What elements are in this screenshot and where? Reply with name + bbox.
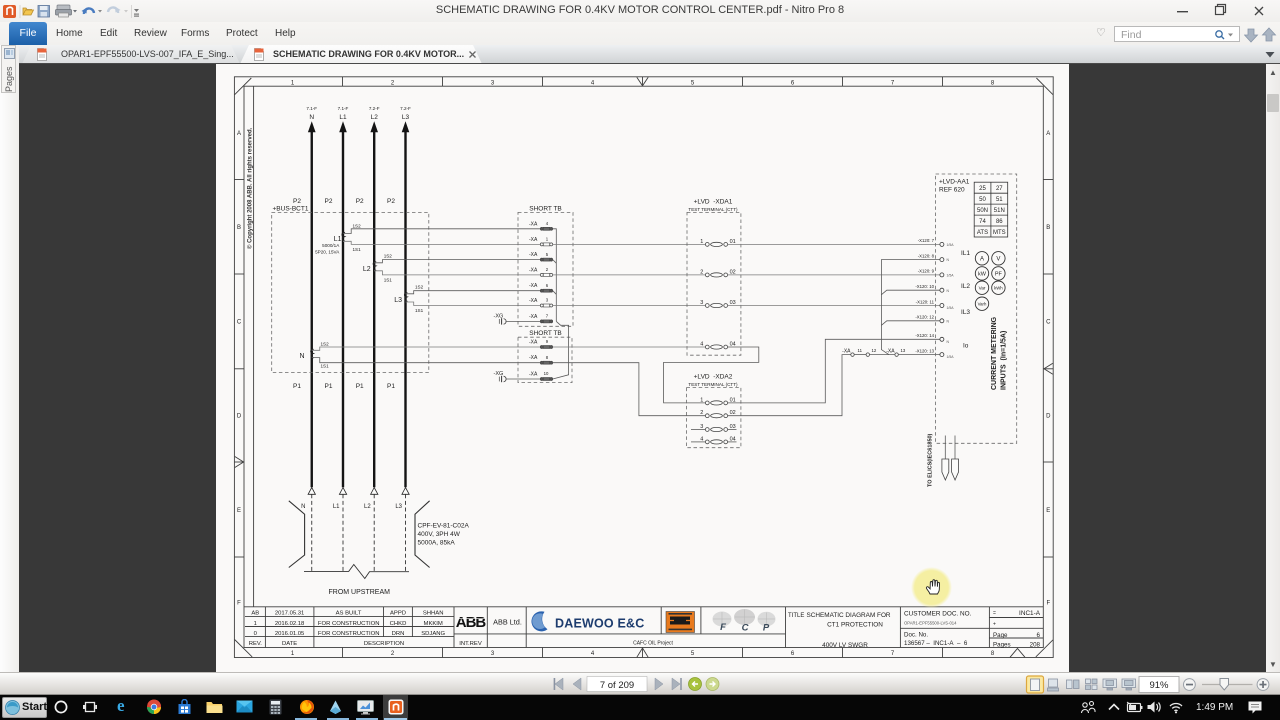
svg-text:25: 25 bbox=[979, 186, 986, 192]
terminal -XA3 bbox=[529, 298, 553, 307]
terminal -XA7 bbox=[529, 314, 553, 323]
wire L3-1S2 to -XA6 bbox=[406, 291, 541, 294]
svg-text:REF 620: REF 620 bbox=[939, 187, 965, 194]
svg-text:12: 12 bbox=[872, 348, 877, 353]
menu bar bbox=[0, 22, 1280, 45]
logo ABB bbox=[456, 614, 487, 631]
svg-text:SHHAN: SHHAN bbox=[423, 611, 444, 617]
svg-text:IL3: IL3 bbox=[961, 309, 970, 316]
test terminal -XDA2:4 bbox=[691, 436, 737, 444]
svg-text:DAEWOO E&C: DAEWOO E&C bbox=[555, 617, 645, 631]
window title bar bbox=[0, 0, 1280, 22]
relay pin 14 bbox=[915, 333, 949, 344]
svg-text:IL1: IL1 bbox=[961, 250, 970, 257]
svg-text:-XA: -XA bbox=[529, 372, 538, 378]
svg-text:7.1-F: 7.1-F bbox=[338, 106, 349, 111]
svg-text:V: V bbox=[996, 257, 1000, 263]
document tab row bbox=[19, 45, 1280, 64]
wire -XDA2:2 to -XA11 row bbox=[728, 355, 851, 416]
svg-text:1S2: 1S2 bbox=[353, 223, 362, 228]
status bar bbox=[0, 672, 1280, 695]
wire -XDA1:2 to relay pin 9 bbox=[728, 274, 940, 276]
logo DAEWOO E&C bbox=[531, 611, 644, 631]
svg-text:2: 2 bbox=[700, 410, 703, 416]
svg-text:3: 3 bbox=[546, 298, 549, 303]
terminal -XA5 bbox=[529, 252, 553, 261]
svg-text:7: 7 bbox=[546, 314, 549, 319]
svg-text:7: 7 bbox=[891, 651, 895, 657]
wire TB1 right common link bbox=[553, 229, 569, 379]
svg-text:-X120: 7: -X120: 7 bbox=[918, 238, 935, 243]
svg-text:kWh: kWh bbox=[994, 286, 1003, 291]
svg-text:L2: L2 bbox=[364, 504, 371, 510]
test terminal -XDA1:4 bbox=[700, 342, 735, 350]
wire -XA3 to -XDA1:3 bbox=[553, 305, 706, 307]
svg-text:-XA: -XA bbox=[529, 298, 538, 304]
svg-text:kW: kW bbox=[978, 272, 987, 278]
svg-text:-X120: 8: -X120: 8 bbox=[918, 253, 935, 258]
svg-text:5P20, 15VA: 5P20, 15VA bbox=[315, 250, 340, 255]
CT box +BUS-BCT1 bbox=[272, 198, 429, 390]
svg-text:2: 2 bbox=[700, 269, 703, 275]
svg-text:C: C bbox=[742, 623, 749, 634]
CT L3 bbox=[394, 284, 423, 313]
svg-text:1S2: 1S2 bbox=[321, 341, 330, 346]
svg-text:MTS: MTS bbox=[993, 230, 1006, 236]
svg-text:E: E bbox=[1046, 508, 1050, 514]
busbar continuation bracket right bbox=[415, 501, 430, 568]
title block grid bbox=[244, 607, 1043, 648]
connector plug to ELICS 2 bbox=[952, 459, 959, 480]
svg-text:FOR CONSTRUCTION: FOR CONSTRUCTION bbox=[318, 621, 380, 627]
upstream line with break bbox=[304, 565, 409, 579]
svg-text:50: 50 bbox=[979, 197, 986, 203]
svg-text:1/5A: 1/5A bbox=[947, 243, 955, 247]
terminal block SHORT TB 1 bbox=[518, 205, 573, 326]
svg-text:+LVD -XDA2: +LVD -XDA2 bbox=[694, 373, 733, 380]
svg-text:3: 3 bbox=[491, 80, 495, 86]
svg-text:-XA: -XA bbox=[842, 349, 851, 355]
wire L1-1S1 to -XA1 bbox=[343, 241, 540, 244]
svg-text:5000/1A: 5000/1A bbox=[322, 243, 340, 248]
svg-text:7.2-F: 7.2-F bbox=[369, 106, 380, 111]
meter A bbox=[975, 252, 988, 265]
svg-text:N: N bbox=[299, 353, 304, 360]
meter Var bbox=[975, 281, 988, 294]
svg-text:OPAR1-EPF55500-LVS-014: OPAR1-EPF55500-LVS-014 bbox=[904, 621, 957, 626]
ground -XG1 bbox=[494, 313, 541, 324]
svg-text:N: N bbox=[947, 258, 950, 262]
test terminal box +LVD -XDA2 bbox=[687, 373, 741, 447]
svg-text:L3: L3 bbox=[394, 297, 402, 304]
svg-text:-X120: 13: -X120: 13 bbox=[915, 348, 934, 353]
svg-text:86: 86 bbox=[996, 219, 1003, 225]
svg-text:TITLE: TITLE bbox=[788, 613, 804, 619]
svg-text:L2: L2 bbox=[371, 114, 379, 121]
svg-text:208: 208 bbox=[1030, 641, 1041, 648]
svg-text:B: B bbox=[237, 225, 241, 231]
svg-text:=: = bbox=[993, 611, 996, 617]
svg-text:3: 3 bbox=[700, 300, 703, 306]
svg-text:F: F bbox=[720, 622, 726, 633]
svg-text:4: 4 bbox=[591, 80, 595, 86]
svg-text:Io: Io bbox=[963, 343, 969, 350]
svg-text:N: N bbox=[309, 114, 314, 121]
svg-text:1: 1 bbox=[546, 237, 549, 242]
svg-text:4: 4 bbox=[546, 221, 549, 226]
svg-text:N: N bbox=[947, 319, 950, 323]
test terminal -XDA2:3 bbox=[691, 424, 737, 432]
svg-text:P1: P1 bbox=[387, 383, 395, 390]
test terminal -XDA2:2 bbox=[700, 410, 735, 418]
svg-text:-XA: -XA bbox=[529, 221, 538, 227]
svg-text:APPD: APPD bbox=[390, 611, 406, 617]
svg-text:-XA: -XA bbox=[529, 355, 538, 361]
wire -XDA1:3 to relay pin 11 bbox=[728, 305, 940, 307]
svg-text:CAFC OIL Project: CAFC OIL Project bbox=[633, 641, 673, 647]
wire -XA2 to -XDA1:2 bbox=[553, 274, 706, 276]
svg-text:1/5A: 1/5A bbox=[947, 274, 955, 278]
svg-text:2016.01.05: 2016.01.05 bbox=[275, 631, 305, 637]
svg-text:INPUTS (In=1/5A): INPUTS (In=1/5A) bbox=[1001, 331, 1008, 390]
relay pin 9 bbox=[918, 269, 954, 278]
svg-text:-X120: 10: -X120: 10 bbox=[915, 284, 934, 289]
wire -XDA1:4 star point loop bbox=[664, 347, 759, 403]
doc number block right bbox=[993, 610, 1041, 649]
svg-text:TEST TERMINAL (CTT): TEST TERMINAL (CTT) bbox=[688, 382, 738, 387]
svg-text:P2: P2 bbox=[387, 198, 395, 205]
test terminal -XDA1:2 bbox=[700, 269, 735, 277]
wire -XA8 to -XDA2:2 bbox=[553, 363, 706, 416]
svg-text:MKKIM: MKKIM bbox=[424, 621, 443, 627]
terminal -XA1 bbox=[529, 237, 553, 246]
svg-text:ABB Ltd.: ABB Ltd. bbox=[493, 618, 522, 627]
svg-text:D: D bbox=[1046, 414, 1051, 420]
svg-text:CT1 PROTECTION: CT1 PROTECTION bbox=[827, 621, 883, 628]
svg-text:TEST TERMINAL (CTT): TEST TERMINAL (CTT) bbox=[688, 207, 738, 212]
wire to ELICS pair bbox=[945, 436, 955, 460]
wire N-1S2 to -XA9 bbox=[312, 347, 541, 350]
svg-text:FROM UPSTREAM: FROM UPSTREAM bbox=[329, 589, 391, 596]
wire L3-1S1 to -XA3 bbox=[406, 302, 541, 306]
logo orange S bbox=[666, 612, 695, 633]
svg-text:7.1-F: 7.1-F bbox=[306, 106, 317, 111]
svg-text:Var: Var bbox=[979, 286, 986, 291]
svg-text:6: 6 bbox=[791, 651, 795, 657]
bus L3 bbox=[395, 106, 411, 571]
svg-text:+: + bbox=[993, 622, 996, 628]
svg-text:L2: L2 bbox=[363, 266, 371, 273]
svg-text:SHORT TB: SHORT TB bbox=[529, 330, 562, 337]
revision table rows bbox=[249, 611, 674, 647]
svg-text:4: 4 bbox=[591, 651, 595, 657]
svg-text:2017.05.31: 2017.05.31 bbox=[275, 611, 304, 617]
svg-text:IL2: IL2 bbox=[961, 283, 970, 290]
test terminal -XDA1:1 bbox=[700, 239, 735, 247]
svg-text:AS BUILT: AS BUILT bbox=[336, 611, 362, 617]
relay function table bbox=[974, 182, 1008, 237]
svg-text:51: 51 bbox=[996, 197, 1003, 203]
svg-text:L1: L1 bbox=[339, 114, 347, 121]
svg-text:-XA: -XA bbox=[529, 252, 538, 258]
svg-text:50N: 50N bbox=[977, 208, 988, 214]
relay pin 7 bbox=[918, 238, 954, 247]
svg-text:9: 9 bbox=[546, 339, 549, 344]
meter kWh bbox=[992, 281, 1005, 294]
terminal block SHORT TB 2 bbox=[518, 330, 572, 382]
wire L2-1S2 to -XA5 bbox=[374, 260, 540, 263]
svg-text:1/5A: 1/5A bbox=[947, 355, 955, 359]
svg-text:2: 2 bbox=[391, 80, 395, 86]
svg-text:DATE: DATE bbox=[282, 641, 297, 647]
svg-text:CPF-EV-81-C02A: CPF-EV-81-C02A bbox=[418, 523, 470, 530]
svg-text:SDJANG: SDJANG bbox=[421, 631, 445, 637]
svg-text:E: E bbox=[237, 508, 241, 514]
svg-text:INT.REV: INT.REV bbox=[459, 641, 482, 647]
svg-text:+LVD-AA1: +LVD-AA1 bbox=[939, 178, 970, 185]
svg-text:L1: L1 bbox=[333, 504, 340, 510]
svg-text:Varh: Varh bbox=[978, 302, 987, 307]
svg-text:1S2: 1S2 bbox=[415, 284, 424, 289]
CT L2 bbox=[363, 253, 392, 282]
CT N bbox=[299, 341, 329, 368]
svg-text:5: 5 bbox=[691, 80, 695, 86]
svg-text:A: A bbox=[1046, 131, 1050, 137]
svg-text:SCHEMATIC DIAGRAM FOR: SCHEMATIC DIAGRAM FOR bbox=[807, 612, 891, 619]
wire -XA1 to -XDA1:1 bbox=[553, 243, 706, 245]
relay pin 8 bbox=[918, 253, 950, 262]
svg-text:1: 1 bbox=[254, 621, 257, 627]
svg-text:+LVD -XDA1: +LVD -XDA1 bbox=[694, 198, 733, 205]
svg-text:8: 8 bbox=[991, 651, 995, 657]
svg-text:N: N bbox=[301, 504, 305, 510]
svg-text:11: 11 bbox=[858, 348, 863, 353]
ground -XG2 bbox=[494, 371, 541, 382]
terminal -XA8 bbox=[529, 355, 553, 364]
terminal -XA:11 -12 bbox=[842, 348, 877, 356]
svg-text:+BUS-BCT1: +BUS-BCT1 bbox=[273, 206, 309, 213]
svg-text:C: C bbox=[237, 320, 242, 326]
svg-text:F: F bbox=[237, 600, 241, 606]
svg-text:5: 5 bbox=[691, 651, 695, 657]
svg-text:INC1-A: INC1-A bbox=[1019, 610, 1041, 617]
bus N bbox=[301, 106, 317, 571]
test terminal -XDA1:3 bbox=[700, 300, 735, 308]
svg-text:91%: 91% bbox=[1149, 680, 1169, 691]
svg-text:P1: P1 bbox=[293, 383, 301, 390]
svg-text:ABB: ABB bbox=[456, 614, 487, 631]
svg-text:7 of 209: 7 of 209 bbox=[600, 680, 634, 691]
relay pin 11 bbox=[916, 299, 955, 310]
svg-text:ATS: ATS bbox=[977, 230, 988, 236]
svg-text:Pages: Pages bbox=[993, 641, 1011, 648]
svg-text:2: 2 bbox=[391, 651, 395, 657]
svg-text:DRN: DRN bbox=[392, 631, 405, 637]
svg-text:P1: P1 bbox=[356, 383, 364, 390]
svg-text:400V LV SWGR: 400V LV SWGR bbox=[822, 642, 868, 649]
svg-text:-XA: -XA bbox=[529, 267, 538, 273]
svg-text:REV.: REV. bbox=[249, 641, 263, 647]
test terminal box +LVD -XDA1 bbox=[687, 198, 741, 355]
svg-text:8: 8 bbox=[991, 80, 995, 86]
relay pin 13 bbox=[915, 348, 954, 359]
svg-text:51N: 51N bbox=[994, 208, 1005, 214]
terminal -XA6 bbox=[529, 283, 553, 292]
CT L1 (5000/1A) bbox=[315, 223, 361, 254]
meter Varh bbox=[975, 297, 988, 310]
taskbar bbox=[0, 695, 1280, 720]
wire -XDA2:1 to relay pin 14 bbox=[728, 339, 940, 403]
svg-text:74: 74 bbox=[979, 219, 986, 225]
svg-text:P1: P1 bbox=[325, 383, 333, 390]
svg-text:6: 6 bbox=[1037, 632, 1041, 639]
svg-text:10: 10 bbox=[544, 371, 549, 376]
svg-text:5000A, 85kA: 5000A, 85kA bbox=[418, 540, 456, 547]
relay pin 10 bbox=[915, 284, 949, 293]
svg-text:C: C bbox=[1046, 320, 1051, 326]
svg-text:P2: P2 bbox=[293, 198, 301, 205]
svg-text:1S1: 1S1 bbox=[321, 364, 330, 369]
pages side strip bbox=[0, 45, 19, 672]
svg-text:D: D bbox=[237, 414, 242, 420]
svg-text:7: 7 bbox=[891, 80, 895, 86]
svg-text:-X120: 12: -X120: 12 bbox=[915, 315, 934, 320]
svg-text:6: 6 bbox=[791, 80, 795, 86]
busbar continuation bracket left bbox=[289, 501, 305, 568]
svg-text:P2: P2 bbox=[325, 198, 333, 205]
svg-text:CUSTOMER DOC. NO.: CUSTOMER DOC. NO. bbox=[904, 611, 972, 618]
svg-text:-XA: -XA bbox=[529, 340, 538, 346]
svg-text:P: P bbox=[763, 623, 770, 634]
relay pin 12 bbox=[915, 315, 949, 324]
svg-text:1/5A: 1/5A bbox=[947, 306, 955, 310]
svg-text:-XA: -XA bbox=[529, 237, 538, 243]
terminal -XA2 bbox=[529, 267, 553, 276]
relay box +LVD-AA1 REF 620 bbox=[936, 174, 1017, 443]
svg-text:DESCRIPTION: DESCRIPTION bbox=[364, 641, 404, 647]
svg-text:-X120: 11: -X120: 11 bbox=[916, 299, 935, 304]
svg-text:A: A bbox=[980, 257, 984, 263]
svg-text:1S1: 1S1 bbox=[353, 247, 362, 252]
svg-text:6: 6 bbox=[546, 283, 549, 288]
svg-text:400V, 3PH 4W: 400V, 3PH 4W bbox=[418, 531, 461, 538]
svg-text:2016.02.18: 2016.02.18 bbox=[275, 621, 305, 627]
terminal -XA9 bbox=[529, 339, 553, 348]
bus L2 bbox=[364, 106, 380, 571]
wire relay common vertical (pins 8-10-12 to 13 row) bbox=[881, 260, 940, 355]
svg-text:A: A bbox=[237, 131, 241, 137]
wire -XDA1:1 to relay pin 7 bbox=[728, 243, 940, 245]
svg-text:N: N bbox=[947, 289, 950, 293]
svg-text:-XA: -XA bbox=[529, 314, 538, 320]
svg-text:AB: AB bbox=[251, 611, 259, 617]
test terminal -XDA2:1 bbox=[700, 397, 735, 405]
svg-text:2: 2 bbox=[546, 267, 549, 272]
logo FCP bbox=[713, 609, 776, 634]
svg-text:L3: L3 bbox=[395, 504, 402, 510]
connector plug to ELICS 1 bbox=[942, 459, 949, 480]
drawing frame bbox=[234, 77, 1053, 658]
svg-text:13: 13 bbox=[901, 348, 906, 353]
svg-text:PF: PF bbox=[995, 272, 1003, 278]
meter V bbox=[992, 252, 1005, 265]
svg-text:8: 8 bbox=[546, 355, 549, 360]
svg-text:P2: P2 bbox=[356, 198, 364, 205]
meter PF bbox=[992, 267, 1005, 280]
svg-text:0: 0 bbox=[254, 631, 258, 637]
svg-text:1: 1 bbox=[291, 651, 295, 657]
svg-text:TO ELICS(IEC61850): TO ELICS(IEC61850) bbox=[928, 433, 934, 487]
svg-text:136567 – INC1-A – 6: 136567 – INC1-A – 6 bbox=[904, 640, 968, 647]
meter kW bbox=[975, 267, 988, 280]
svg-text:FOR CONSTRUCTION: FOR CONSTRUCTION bbox=[318, 631, 380, 637]
svg-text:Page: Page bbox=[993, 632, 1008, 639]
svg-text:L1: L1 bbox=[334, 236, 342, 243]
title text bbox=[788, 612, 891, 649]
terminal -XA10 bbox=[529, 371, 553, 380]
svg-text:27: 27 bbox=[996, 186, 1003, 192]
svg-text:CURRENT METERING: CURRENT METERING bbox=[991, 316, 998, 390]
svg-text:5: 5 bbox=[546, 252, 549, 257]
svg-text:1: 1 bbox=[291, 80, 295, 86]
wire -XA9 to -XDA1:4 bbox=[553, 346, 706, 348]
wire L1-1S2 to -XA4 bbox=[343, 229, 540, 234]
svg-text:1S1: 1S1 bbox=[415, 308, 424, 313]
svg-text:Doc. No.: Doc. No. bbox=[904, 632, 928, 639]
svg-text:1: 1 bbox=[700, 397, 703, 403]
terminal -XA:13 bbox=[870, 348, 940, 356]
right scrollbar bbox=[1266, 64, 1280, 672]
svg-text:© Copyright 2008 ABB. All righ: © Copyright 2008 ABB. All rights reserve… bbox=[247, 127, 254, 249]
svg-text:-XA: -XA bbox=[529, 283, 538, 289]
svg-text:1S1: 1S1 bbox=[384, 277, 393, 282]
feeder name label bbox=[418, 523, 470, 547]
svg-text:-X120: 14: -X120: 14 bbox=[915, 333, 934, 338]
svg-text:1S2: 1S2 bbox=[384, 253, 393, 258]
svg-text:L3: L3 bbox=[402, 114, 410, 121]
svg-text:3: 3 bbox=[491, 651, 495, 657]
svg-text:-X120: 9: -X120: 9 bbox=[918, 269, 935, 274]
wire N-1S1 to -XA8 bbox=[312, 358, 541, 363]
svg-text:F: F bbox=[1046, 600, 1050, 606]
svg-text:CHKD: CHKD bbox=[390, 621, 407, 627]
svg-text:4: 4 bbox=[700, 342, 703, 348]
svg-text:B: B bbox=[1046, 225, 1050, 231]
terminal -XA4 bbox=[529, 221, 553, 230]
wire L2-1S1 to -XA2 bbox=[374, 271, 540, 275]
svg-text:SHORT TB: SHORT TB bbox=[529, 205, 562, 212]
svg-text:N: N bbox=[947, 340, 950, 344]
customer doc block bbox=[904, 611, 972, 647]
bus L1 bbox=[333, 106, 349, 571]
svg-text:7.2-F: 7.2-F bbox=[400, 106, 411, 111]
svg-text:1: 1 bbox=[700, 239, 703, 245]
